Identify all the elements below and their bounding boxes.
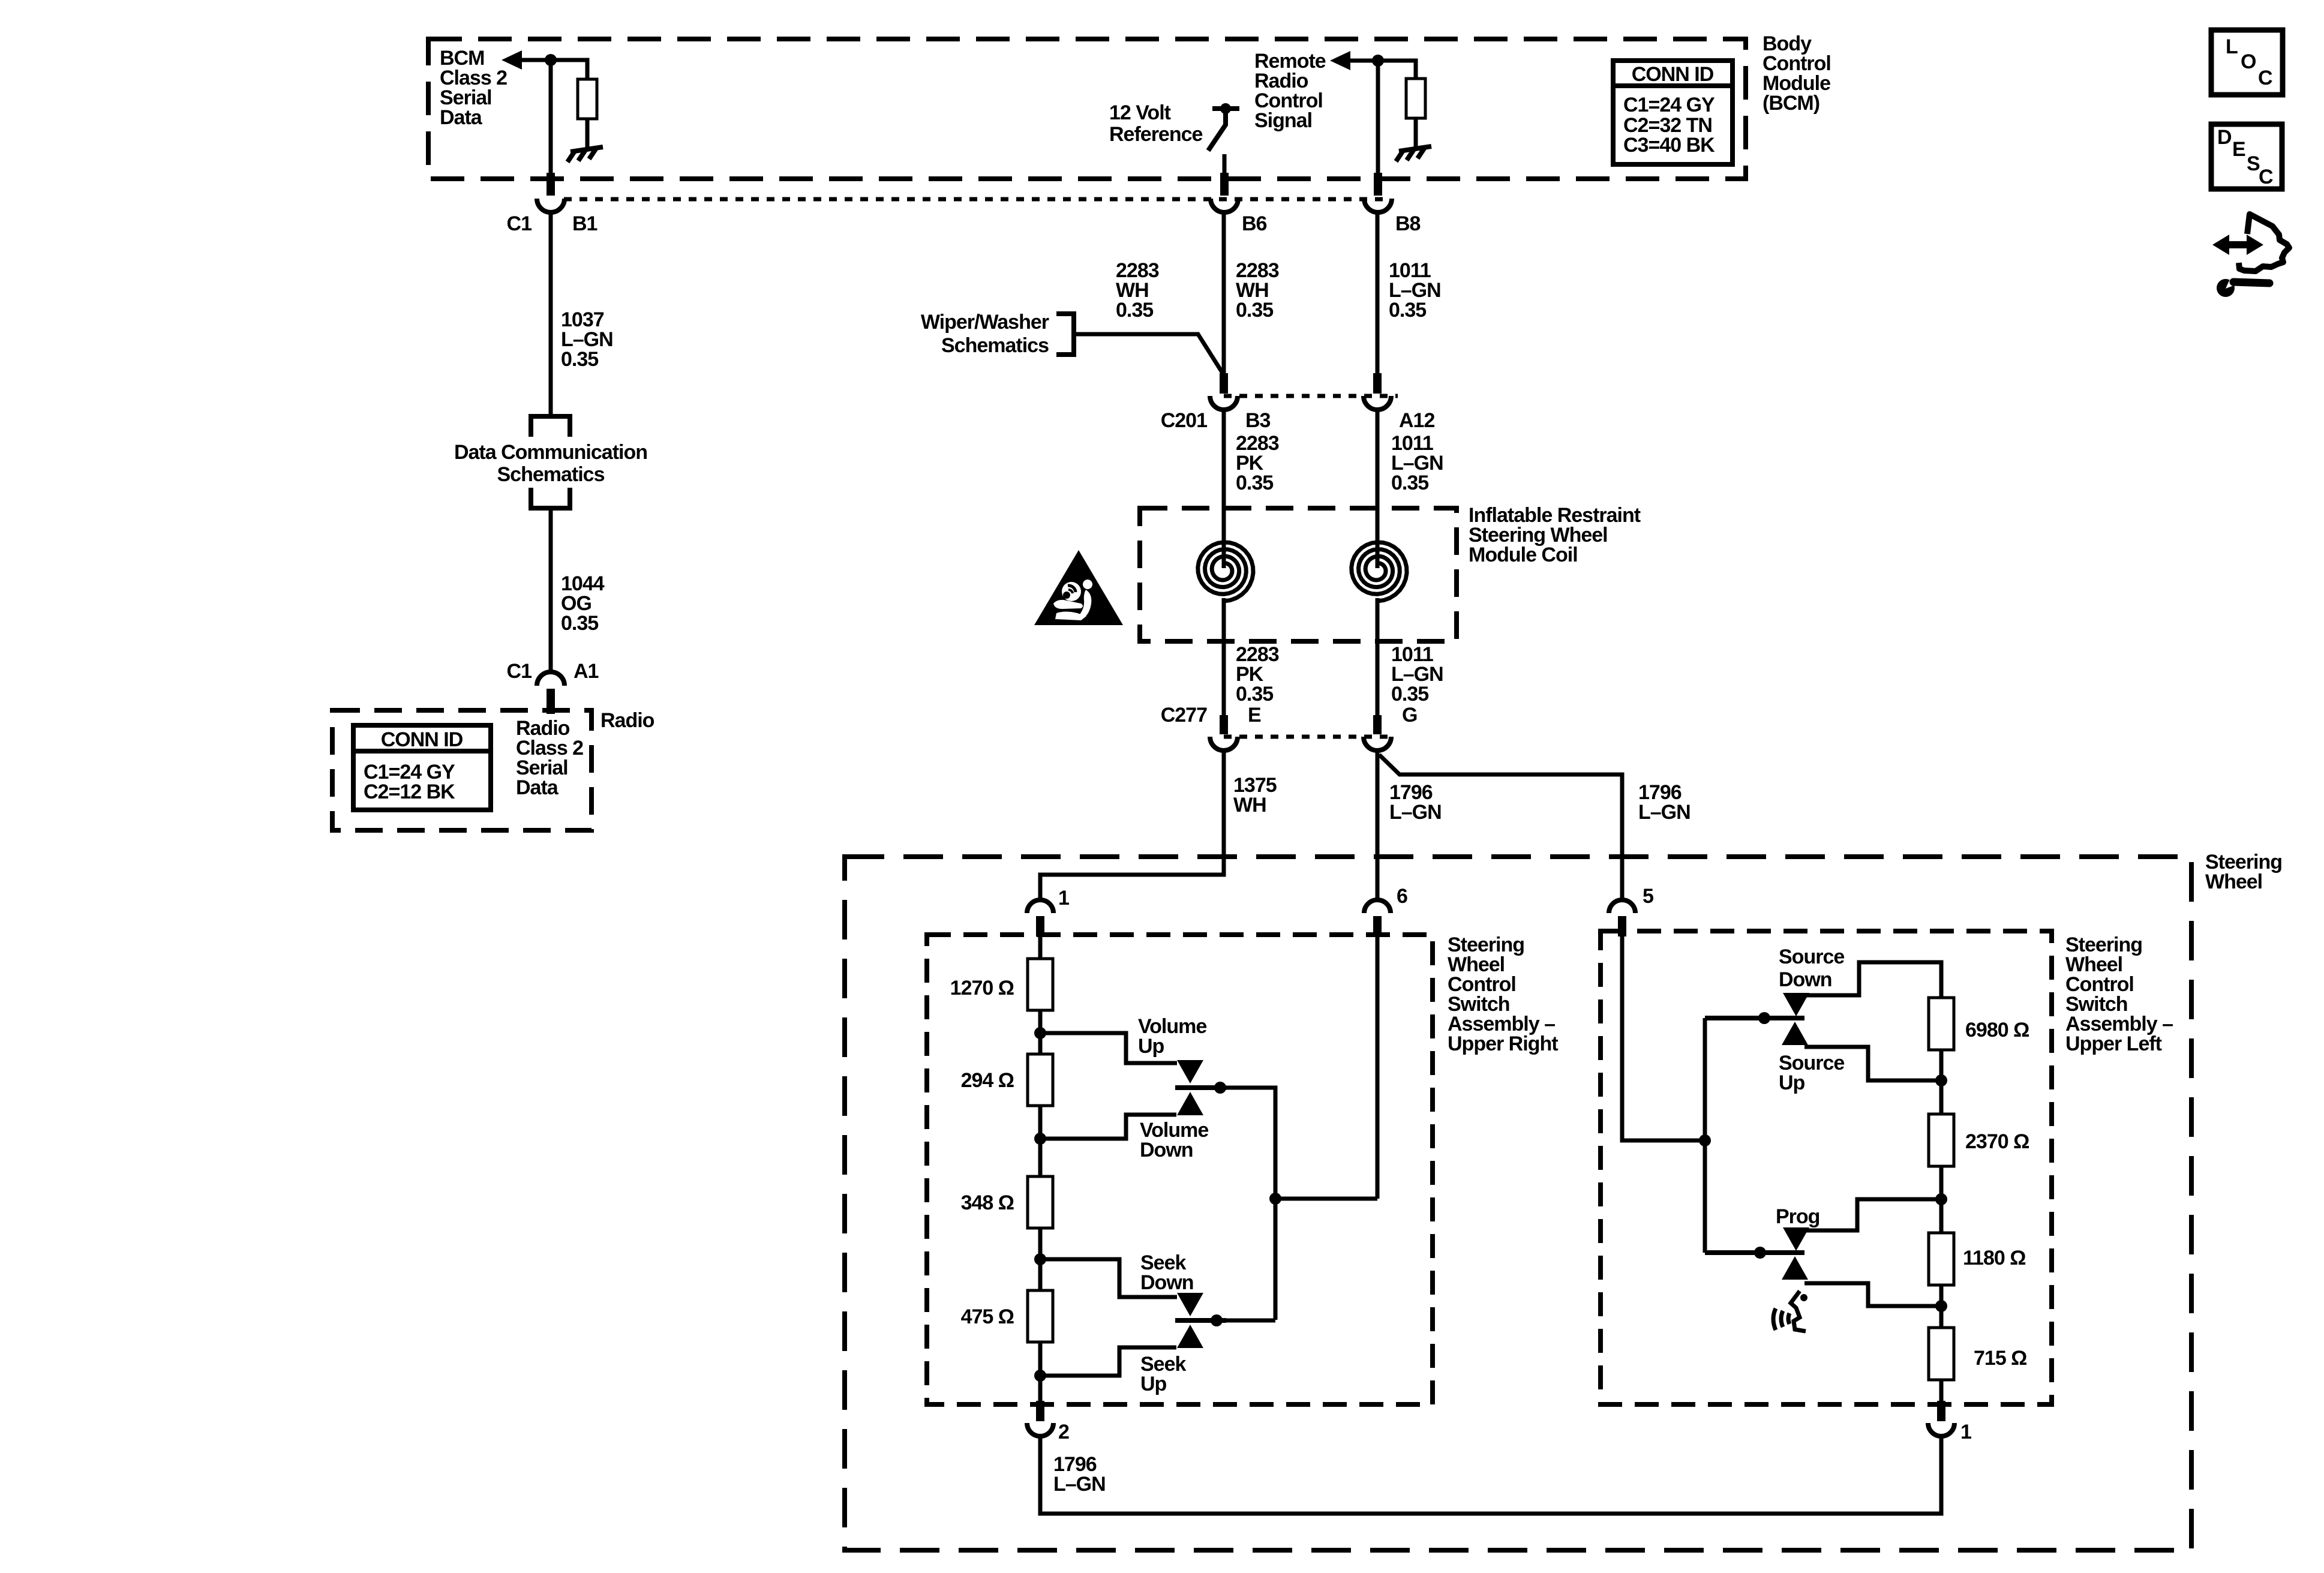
connector C277-G (1373, 715, 1382, 734)
wire source down (1806, 962, 1941, 998)
svg-text:475 Ω: 475 Ω (961, 1305, 1014, 1328)
connector A12 (1373, 373, 1382, 394)
ground BCM right (1396, 146, 1431, 161)
wire 2283 WH B6 to C201 (1222, 212, 1226, 379)
wire (1939, 1166, 1944, 1233)
svg-text:L–GN: L–GN (1053, 1473, 1106, 1496)
connector C277-E (1220, 715, 1228, 734)
DESC box (2211, 124, 2282, 189)
wire 1037 L-GN (549, 212, 553, 416)
wire 1796 G to connector 5 (1379, 755, 1622, 901)
svg-text:Radio: Radio (600, 709, 654, 732)
node junction on bus (1699, 1134, 1711, 1146)
svg-text:L–GN: L–GN (1638, 801, 1691, 824)
wire prog switch (1806, 1199, 1941, 1230)
svg-text:0.35: 0.35 (1391, 683, 1428, 706)
svg-text:294 Ω: 294 Ω (961, 1069, 1014, 1092)
connector row dotted line C277 (1224, 735, 1392, 739)
resistor 6980 (1929, 998, 1954, 1050)
source down switch contact triangle (1783, 993, 1809, 1016)
wire common to connector 6 wire (1275, 1197, 1377, 1201)
svg-text:C1: C1 (507, 660, 532, 683)
svg-text:0.35: 0.35 (1391, 472, 1428, 494)
svg-text:0.35: 0.35 (1236, 299, 1273, 322)
svg-text:L–GN: L–GN (1389, 801, 1442, 824)
svg-text:B6: B6 (1242, 212, 1267, 235)
node junction B8 (1372, 55, 1384, 67)
wire remote radio signal internal (1348, 61, 1416, 79)
svg-text:CONN ID: CONN ID (1632, 63, 1714, 86)
resistor BCM left pull-up (578, 79, 597, 119)
arrow remote radio control signal (1330, 51, 1350, 70)
svg-text:348 Ω: 348 Ω (961, 1191, 1014, 1214)
wire B1 down to connector (549, 60, 553, 175)
wire 1796 G to connector 6 (1376, 751, 1380, 901)
resistor 294 (1028, 1054, 1053, 1106)
svg-text:O: O (2241, 50, 2256, 73)
wire seek bar to common (1217, 1319, 1275, 1323)
svg-text:B1: B1 (572, 212, 597, 235)
wire seek up switch (1040, 1347, 1176, 1376)
switch bar seek (1175, 1318, 1226, 1323)
svg-text:6: 6 (1397, 885, 1407, 908)
svg-text:Up: Up (1779, 1071, 1805, 1094)
Inflatable Restraint Steering Wheel Module Coil dashed box (1140, 508, 1457, 641)
svg-text:C1: C1 (507, 212, 532, 235)
coil left spiral (1198, 542, 1253, 601)
node junction volume up (1034, 1027, 1046, 1039)
wire to connector 1 bottom (1939, 1380, 1944, 1401)
SIR warning triangle (1034, 550, 1123, 625)
voice recognition icon (1773, 1291, 1806, 1331)
svg-text:715 Ω: 715 Ω (1974, 1347, 2026, 1370)
connector row dotted line C1/B6/B8 (564, 197, 1386, 202)
node dot seek bar (1211, 1314, 1223, 1326)
connector C1-A1 (537, 672, 565, 686)
Steering Wheel Control Switch Assembly Upper Right dashed box (927, 935, 1433, 1404)
svg-text:1: 1 (1058, 887, 1069, 909)
svg-text:Data Communication: Data Communication (454, 441, 647, 464)
svg-text:(BCM): (BCM) (1762, 92, 1819, 115)
wire wiper/washer to C201 (1074, 334, 1224, 375)
resistor 348 (1028, 1176, 1053, 1228)
svg-text:S: S (2247, 152, 2260, 175)
svg-text:B8: B8 (1395, 212, 1421, 235)
svg-text:Down: Down (1140, 1139, 1193, 1161)
Steering Wheel Control Switch Assembly Upper Left dashed box (1601, 931, 2052, 1404)
connector 5 (steering wheel top) (1609, 900, 1635, 913)
diagnostic icon wrench (2217, 275, 2269, 297)
off-page reference Data Communication Schematics (531, 416, 570, 437)
wire B8 down to connector (1376, 61, 1380, 175)
svg-text:D: D (2217, 126, 2232, 149)
svg-text:E: E (1248, 704, 1261, 727)
svg-text:1270 Ω: 1270 Ω (950, 977, 1014, 999)
svg-text:Signal: Signal (1254, 109, 1312, 132)
connector C1-B1 (547, 173, 555, 196)
node junction voice (1935, 1300, 1947, 1312)
node junction common (1269, 1193, 1281, 1205)
ground BCM left (568, 147, 603, 162)
svg-text:5: 5 (1643, 885, 1653, 908)
wire (1038, 1228, 1043, 1290)
node dot prog bar (1754, 1247, 1766, 1259)
node junction B1 (545, 54, 557, 66)
volume up switch contact triangle (1177, 1060, 1203, 1083)
node dot volume bar (1214, 1082, 1226, 1094)
svg-text:Module Coil: Module Coil (1469, 544, 1578, 566)
svg-text:Up: Up (1140, 1373, 1167, 1395)
svg-text:2: 2 (1058, 1421, 1069, 1443)
svg-text:2370 Ω: 2370 Ω (1965, 1130, 2029, 1153)
svg-text:A12: A12 (1399, 409, 1434, 432)
svg-text:Up: Up (1138, 1035, 1164, 1058)
svg-text:0.35: 0.35 (1116, 299, 1153, 322)
wire BCM serial data internal (520, 60, 587, 79)
svg-text:Data: Data (440, 106, 483, 129)
wire resistor to ground (585, 119, 590, 150)
wire 1011 A12 to coil (1376, 410, 1380, 568)
node junction prog (1935, 1193, 1947, 1205)
wire volume up switch (1040, 1033, 1177, 1063)
connector 1 (bottom of upper left assembly) (1937, 1401, 1945, 1421)
svg-text:Schematics: Schematics (497, 463, 605, 486)
wire seek down switch (1040, 1259, 1177, 1297)
svg-text:C: C (2258, 67, 2272, 89)
wire (1038, 1106, 1043, 1176)
bracket wiper/washer off-page (1056, 314, 1074, 355)
svg-text:B3: B3 (1245, 409, 1271, 432)
svg-text:1: 1 (1960, 1421, 1971, 1443)
switch bar source (1705, 1016, 1804, 1020)
svg-text:Source: Source (1779, 945, 1844, 968)
wire 1375 WH E to connector 1 (1040, 751, 1224, 901)
svg-text:C201: C201 (1161, 409, 1207, 432)
wire connector 1 to resistor ladder (1038, 936, 1043, 959)
svg-text:0.35: 0.35 (561, 348, 598, 371)
coil right spiral (1352, 542, 1407, 601)
resistor BCM right pull-up (1406, 79, 1425, 118)
node junction seek down (1034, 1253, 1046, 1265)
resistor 715 (1929, 1328, 1954, 1380)
svg-text:12 Volt: 12 Volt (1109, 101, 1171, 124)
svg-text:0.35: 0.35 (1389, 299, 1426, 322)
node junction seek up (1034, 1370, 1046, 1382)
wire 2283 PK coil to C277 (1222, 598, 1226, 719)
wire (1939, 1285, 1944, 1328)
wire 1796 bottom connector 2 to connector 1 (1040, 1436, 1941, 1514)
wire switch to B6 connector (1223, 154, 1227, 175)
voice switch contact triangle (1782, 1256, 1808, 1280)
connector B6 (1220, 173, 1229, 196)
volume down switch contact triangle (1177, 1092, 1203, 1115)
connector 2 (bottom of upper right assembly) (1036, 1401, 1044, 1421)
svg-text:C3=40 BK: C3=40 BK (1623, 134, 1715, 157)
svg-text:Upper Left: Upper Left (2065, 1032, 2162, 1055)
switch 12 volt reference (1212, 106, 1239, 111)
prog switch contact triangle (1783, 1227, 1809, 1251)
svg-text:Wheel: Wheel (2205, 870, 2262, 893)
wire 1011 B8 to A12 (1376, 212, 1380, 379)
resistor 1180 (1929, 1233, 1954, 1285)
wire volume bar to common (1220, 1088, 1275, 1320)
switch bar prog (1705, 1250, 1804, 1255)
svg-text:L: L (2226, 35, 2238, 58)
wire (1038, 1010, 1043, 1054)
svg-text:E: E (2232, 138, 2245, 161)
svg-text:Schematics: Schematics (941, 334, 1049, 357)
svg-text:CONN ID: CONN ID (381, 728, 463, 751)
arrow BCM Class 2 Serial Data (502, 50, 522, 70)
Body Control Module (BCM) dashed box (428, 39, 1746, 179)
svg-text:C2=12 BK: C2=12 BK (364, 781, 455, 803)
diagnostic icon arrow (2212, 235, 2263, 255)
svg-text:A1: A1 (574, 660, 599, 683)
seek down switch contact triangle (1177, 1293, 1203, 1316)
CONN ID table Radio (353, 725, 491, 810)
resistor 475 (1028, 1290, 1053, 1342)
wire voice switch (1804, 1283, 1941, 1306)
node junction source up (1935, 1074, 1947, 1086)
wire volume down switch (1040, 1115, 1176, 1139)
svg-text:Down: Down (1140, 1271, 1194, 1294)
svg-text:Down: Down (1779, 968, 1832, 991)
source up switch contact triangle (1782, 1022, 1808, 1045)
svg-text:C1=24 GY: C1=24 GY (1623, 94, 1715, 116)
svg-text:C: C (2259, 166, 2273, 188)
resistor 2370 (1929, 1114, 1954, 1166)
svg-text:Data: Data (516, 776, 559, 799)
seek up switch contact triangle (1177, 1325, 1203, 1348)
wire 1011 coil to C277 G (1376, 598, 1380, 719)
connector 6 (steering wheel top) (1364, 900, 1391, 913)
CONN ID table BCM (1613, 61, 1733, 164)
resistor 1270 (1028, 959, 1053, 1010)
wire (1038, 1342, 1043, 1401)
Steering Wheel outer dashed box (845, 857, 2191, 1550)
left vertical bus (1703, 1018, 1707, 1253)
node junction volume down (1034, 1133, 1046, 1145)
svg-text:G: G (1402, 704, 1417, 727)
svg-text:1180 Ω: 1180 Ω (1963, 1247, 2025, 1269)
svg-text:0.35: 0.35 (1236, 683, 1273, 706)
svg-text:WH: WH (1233, 794, 1266, 816)
svg-text:Wiper/Washer: Wiper/Washer (921, 311, 1049, 334)
svg-text:Reference: Reference (1109, 123, 1203, 146)
Radio dashed box (332, 710, 591, 830)
connector row dotted line C201 (1224, 394, 1398, 398)
diagnostic icon car outline (2239, 214, 2289, 271)
svg-text:0.35: 0.35 (1236, 472, 1273, 494)
svg-text:Prog: Prog (1776, 1205, 1819, 1228)
svg-text:Upper Right: Upper Right (1448, 1032, 1558, 1055)
wire connector 6 down to common (1376, 936, 1380, 1199)
wire 2283 PK C201 to coil (1222, 410, 1226, 568)
wire resistor to ground right (1414, 118, 1418, 149)
node dot source bar (1758, 1012, 1770, 1024)
wire 1044 OG (549, 508, 553, 672)
wire source up (1804, 1047, 1941, 1080)
LOC box (2211, 30, 2283, 95)
wire connector 5 into assembly (1622, 936, 1705, 1140)
connector C201-B3 (1220, 373, 1228, 394)
switch bar volume (1175, 1085, 1226, 1090)
wire (1939, 1050, 1944, 1114)
connector B8 (1374, 173, 1382, 196)
svg-text:6980 Ω: 6980 Ω (1965, 1019, 2029, 1041)
connector 1 (steering wheel top) (1027, 900, 1053, 913)
svg-text:0.35: 0.35 (561, 612, 598, 635)
svg-text:C277: C277 (1161, 704, 1207, 727)
